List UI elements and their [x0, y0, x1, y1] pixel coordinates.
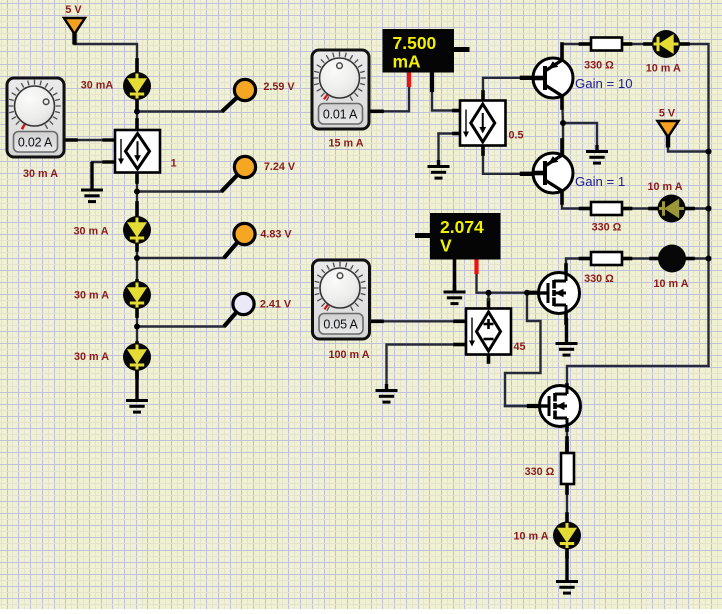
svg-text:30 m A: 30 m A	[23, 168, 58, 180]
svg-text:30 m A: 30 m A	[73, 226, 108, 238]
svg-text:mA: mA	[393, 52, 422, 72]
svg-text:4.83 V: 4.83 V	[260, 229, 292, 241]
svg-text:10 m A: 10 m A	[513, 531, 548, 543]
svg-text:0.05 A: 0.05 A	[323, 317, 358, 331]
svg-text:30 mA: 30 mA	[81, 80, 114, 92]
svg-text:2.074: 2.074	[440, 217, 484, 237]
svg-text:5 V: 5 V	[659, 108, 676, 120]
svg-text:15 m A: 15 m A	[328, 137, 363, 149]
svg-text:10 m A: 10 m A	[653, 278, 688, 290]
svg-text:100 m A: 100 m A	[328, 349, 369, 361]
svg-text:330 Ω: 330 Ω	[584, 60, 614, 72]
svg-text:45: 45	[513, 341, 525, 353]
svg-text:7.500: 7.500	[393, 33, 437, 53]
svg-text:30 m A: 30 m A	[74, 351, 109, 363]
svg-text:330 Ω: 330 Ω	[584, 273, 614, 285]
svg-text:30 m A: 30 m A	[74, 290, 109, 302]
svg-text:0.5: 0.5	[508, 129, 523, 141]
svg-text:5 V: 5 V	[65, 4, 82, 16]
svg-text:330 Ω: 330 Ω	[525, 466, 555, 478]
svg-text:7.24 V: 7.24 V	[264, 161, 296, 173]
svg-text:0.01 A: 0.01 A	[323, 107, 358, 121]
svg-text:V: V	[440, 236, 452, 256]
svg-text:10 m A: 10 m A	[646, 63, 681, 75]
svg-text:10 m A: 10 m A	[647, 181, 682, 193]
svg-text:2.41 V: 2.41 V	[260, 299, 292, 311]
svg-text:330 Ω: 330 Ω	[592, 222, 622, 234]
svg-text:0.02 A: 0.02 A	[18, 135, 53, 149]
svg-text:Gain = 10: Gain = 10	[575, 76, 633, 91]
svg-text:2.59 V: 2.59 V	[263, 81, 295, 93]
svg-text:1: 1	[171, 158, 177, 170]
svg-text:Gain = 1: Gain = 1	[575, 174, 625, 189]
